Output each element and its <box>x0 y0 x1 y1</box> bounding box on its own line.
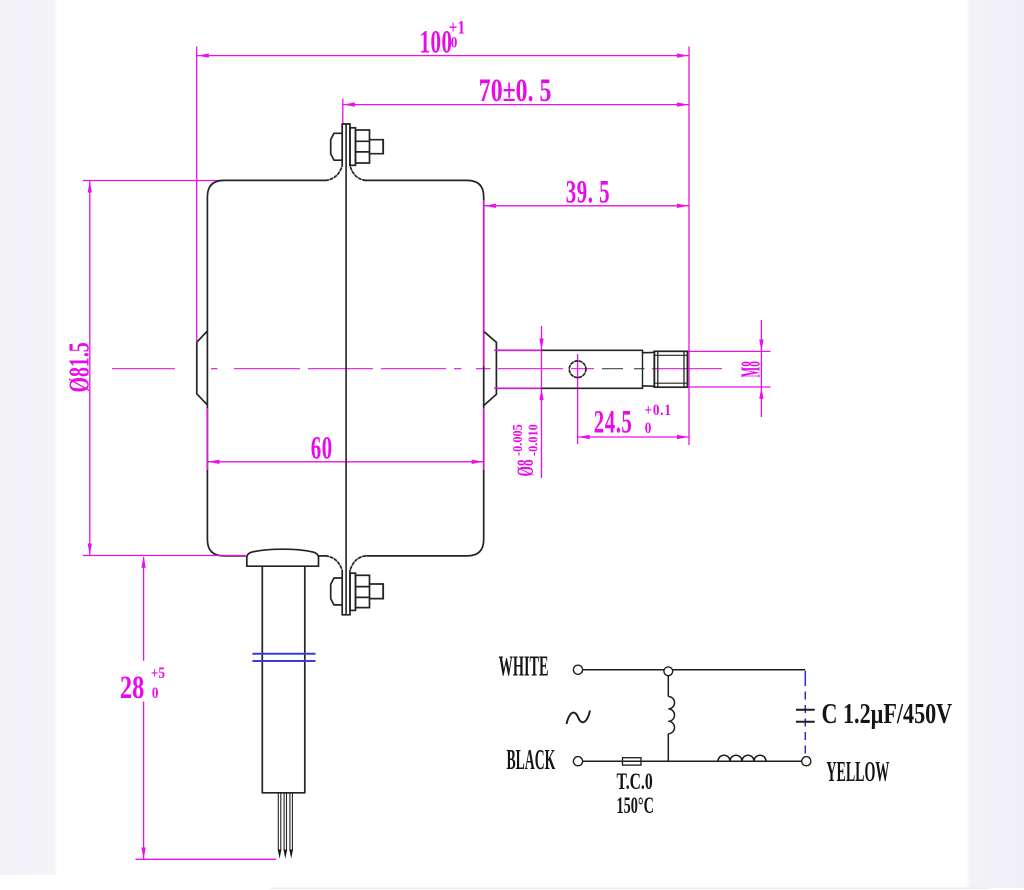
svg-text:+0.1: +0.1 <box>645 402 672 419</box>
svg-text:BLACK: BLACK <box>507 743 556 775</box>
svg-text:-0.010: -0.010 <box>525 424 541 456</box>
svg-text:C 1.2µF/450V: C 1.2µF/450V <box>822 699 953 729</box>
svg-text:39. 5: 39. 5 <box>566 173 610 210</box>
svg-text:70±0. 5: 70±0. 5 <box>479 72 552 109</box>
svg-text:0: 0 <box>152 685 159 702</box>
svg-text:Ø81.5: Ø81.5 <box>64 342 95 392</box>
svg-text:0: 0 <box>645 420 652 437</box>
svg-text:100: 100 <box>420 22 453 59</box>
svg-text:YELLOW: YELLOW <box>826 756 889 788</box>
svg-text:24.5: 24.5 <box>594 402 633 439</box>
svg-text:60: 60 <box>311 429 333 466</box>
svg-text:+1: +1 <box>449 17 465 38</box>
svg-text:M8: M8 <box>737 361 766 377</box>
svg-text:Ø8: Ø8 <box>514 459 540 476</box>
svg-text:150°C: 150°C <box>617 793 654 818</box>
svg-text:WHITE: WHITE <box>499 650 549 681</box>
svg-text:T.C.0: T.C.0 <box>617 769 653 795</box>
svg-text:+5: +5 <box>151 665 165 682</box>
svg-text:-0.005: -0.005 <box>509 424 525 456</box>
svg-text:28: 28 <box>120 670 144 706</box>
